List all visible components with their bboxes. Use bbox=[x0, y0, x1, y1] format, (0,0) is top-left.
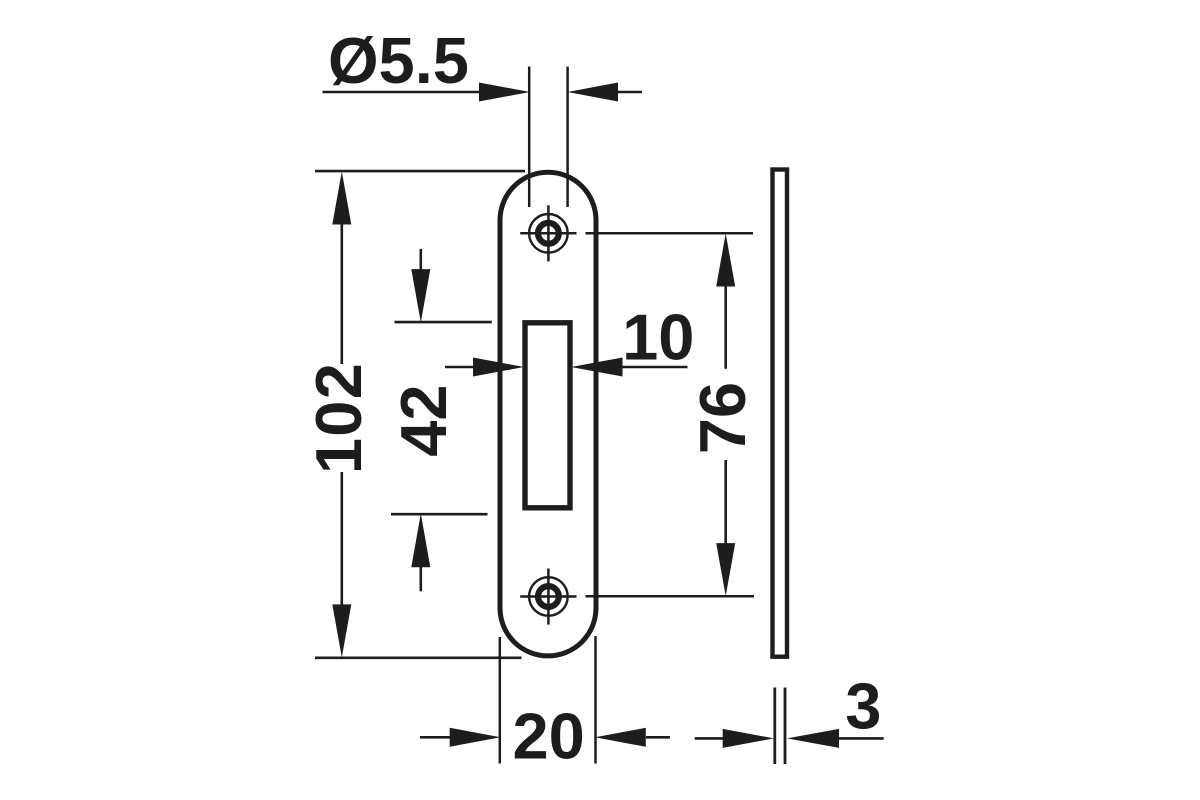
dim 3 leader line left bbox=[695, 737, 724, 740]
dim 76 arrowhead up bbox=[716, 234, 735, 287]
bottom screw hole crosshair horizontal bbox=[520, 595, 576, 598]
svg-text:102: 102 bbox=[302, 362, 375, 474]
top screw hole inner ring bbox=[538, 223, 559, 244]
side view plate profile bbox=[773, 170, 788, 657]
dim 10 leader line right (under text) bbox=[619, 366, 688, 369]
dim 10 leader line left bbox=[445, 366, 476, 369]
dim 20 arrowhead left bbox=[450, 728, 501, 747]
svg-text:10: 10 bbox=[622, 301, 694, 374]
dim 102 top extension line bbox=[315, 170, 525, 173]
dim 102 line lower bbox=[340, 472, 343, 606]
bottom screw hole crosshair vertical bbox=[547, 569, 550, 625]
dim Ø5.5 arrowhead right bbox=[568, 83, 619, 102]
dim 42 arrowhead up bbox=[411, 514, 430, 568]
dim 3 arrowhead right bbox=[787, 729, 839, 748]
front view plate outline bbox=[500, 172, 596, 656]
dim 42 arrowhead down bbox=[411, 269, 430, 322]
svg-text:3: 3 bbox=[845, 669, 881, 742]
svg-text:20: 20 bbox=[512, 699, 584, 772]
svg-text:Ø5.5: Ø5.5 bbox=[328, 24, 469, 97]
dim 10 arrowhead right bbox=[571, 358, 623, 377]
dim 42 lower line (arrow up) bbox=[419, 548, 422, 591]
dim 20 leader line left bbox=[420, 736, 451, 739]
dim 102 bottom extension line bbox=[315, 656, 522, 659]
dim 10 arrowhead left bbox=[473, 358, 524, 377]
slot (latch opening) bbox=[525, 323, 570, 508]
dim 42 upper line (arrow down) bbox=[419, 249, 422, 272]
dim 76 top extension line (from top hole) bbox=[586, 232, 754, 235]
dim Ø5.5 arrowhead left bbox=[479, 83, 530, 102]
dim 3 arrowhead left bbox=[723, 729, 774, 748]
dim 76 bottom extension line (from bottom hole) bbox=[586, 595, 755, 598]
dim 42 bottom extension line bbox=[391, 513, 488, 516]
dim Ø5.5 leader line left bbox=[323, 91, 483, 94]
svg-text:76: 76 bbox=[686, 382, 759, 454]
dim 102 line upper bbox=[340, 223, 343, 364]
dim Ø5.5 extension line left bbox=[528, 67, 531, 208]
bottom screw hole inner ring bbox=[538, 586, 559, 607]
dim Ø5.5 extension line right bbox=[566, 67, 569, 208]
dim 76 upper line bbox=[724, 285, 727, 369]
dim 102 arrowhead up bbox=[332, 172, 351, 225]
dim 20 extension line right bbox=[594, 636, 597, 764]
dim 20 extension line left bbox=[499, 637, 502, 764]
top screw hole outer circle bbox=[529, 214, 568, 253]
dim 3 leader line right bbox=[837, 737, 884, 740]
dim 3 tick left bbox=[773, 688, 776, 765]
dim 76 lower line bbox=[724, 460, 727, 547]
dim 20 arrowhead right bbox=[595, 728, 646, 747]
svg-text:42: 42 bbox=[387, 384, 460, 456]
dim 42 top extension line bbox=[395, 321, 492, 324]
dim Ø5.5 leader line right bbox=[615, 91, 642, 94]
top screw hole crosshair horizontal bbox=[520, 232, 576, 235]
dim 102 arrowhead down bbox=[332, 604, 351, 657]
bottom screw hole outer circle bbox=[529, 577, 568, 616]
top screw hole crosshair vertical bbox=[547, 205, 550, 261]
dim 3 tick right bbox=[784, 688, 787, 765]
dim 76 arrowhead down bbox=[716, 543, 735, 596]
dim 20 leader line right bbox=[646, 736, 670, 739]
